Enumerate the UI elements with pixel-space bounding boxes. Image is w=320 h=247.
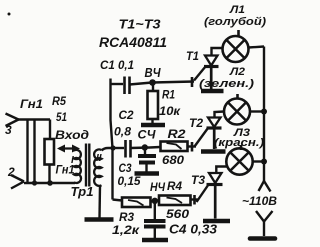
junction tick T2 gate [191,142,194,152]
svg-text:~110В: ~110В [242,194,277,208]
ground C4 [142,238,168,243]
ground R1 [141,123,165,128]
svg-text:Л2: Л2 [229,66,245,78]
svg-text:680: 680 [162,153,184,167]
wire L2 right to rail [250,110,264,112]
capacitor C3 [118,151,157,189]
svg-text:10к: 10к [159,104,181,118]
wire C1 to VCh node [130,83,153,85]
svg-text:С3: С3 [119,163,133,175]
svg-text:560: 560 [166,209,190,221]
lamp L1 [223,30,249,62]
vertical bus wire [111,79,113,200]
ground T3 [203,219,230,224]
junction tick T3 gate [193,195,196,205]
capacitor C1 [100,60,134,94]
svg-text:Тр1: Тр1 [71,184,94,199]
thyristor T1 [186,51,219,89]
svg-text:3: 3 [5,123,12,137]
jack pin 3 [5,114,19,138]
resistor R5 [45,96,68,183]
svg-text:Т3: Т3 [191,175,206,187]
svg-text:1,2к: 1,2к [112,225,140,237]
wire bus to C2 [113,147,125,149]
svg-text:R1: R1 [162,90,175,102]
thyristor T3 [191,173,223,219]
jack contact line B [33,119,35,183]
svg-text:2: 2 [7,165,15,179]
ground T2 [201,149,226,154]
terminal upper (rail end) [259,181,271,192]
svg-text:С1 0,1: С1 0,1 [100,60,134,72]
svg-text:Вход: Вход [55,130,89,142]
svg-text:II: II [96,153,102,164]
node rail L3 [261,159,267,165]
wire secondary bottom lead [98,186,101,219]
node R3-R4 [152,198,158,204]
node SCh [142,144,148,150]
svg-text:Гн1: Гн1 [56,165,75,177]
wire L2 left to T2 anode [215,112,225,118]
capacitor C4 [144,204,218,239]
resistor R3 [112,198,155,238]
transformer Tr1 primary winding I [71,150,81,183]
node bus-C2 [110,145,115,150]
svg-text:R2: R2 [168,129,187,141]
node VCh [149,79,156,86]
svg-text:С2: С2 [119,110,135,122]
wire bus corner to R3 [113,200,123,201]
ground T1 [201,89,224,94]
svg-text:51: 51 [56,112,67,124]
svg-text:Гн1: Гн1 [20,99,43,111]
svg-text:СЧ: СЧ [138,128,157,142]
svg-text:Т2: Т2 [189,118,204,130]
terminal lower [250,211,275,239]
wire L1 right to rail [249,47,265,48]
wire C2 to SCh node [131,146,151,149]
svg-text:Т1: Т1 [186,51,199,63]
input arrow [57,145,80,153]
transformer core [86,144,89,187]
svg-text:ВЧ: ВЧ [145,66,162,80]
lamp L2 [224,94,250,125]
svg-text:0,8: 0,8 [114,127,132,139]
right rail [263,47,265,182]
wire secondary top to bus [102,148,114,151]
ground transformer [85,217,114,222]
resistor R2 [150,129,196,167]
ground C3 [135,171,160,176]
wire L3 left to T3 anode [216,167,228,174]
junction tick T1 gate [191,77,194,87]
resistor R4 [155,181,198,221]
svg-text:R3: R3 [119,212,135,224]
wire VCh node to T1 gate [153,82,195,83]
node bottom A [32,180,37,185]
resistor R1 [148,85,181,123]
jack pin 2 [7,165,24,189]
wire L3 right to rail [253,160,264,162]
wire top bus corner to C1 [110,83,124,85]
stray dot [8,13,11,16]
wire L1 left to T1 anode [212,48,223,56]
thyristor T2 [189,118,222,150]
node R5 bottom [47,180,53,186]
node rail L2 [261,109,267,115]
svg-text:(голубой): (голубой) [204,16,266,28]
svg-text:0,15: 0,15 [118,176,142,188]
svg-text:R4: R4 [167,181,183,193]
svg-text:Т1~Т3: Т1~Т3 [119,17,162,32]
lamp L3 [226,145,252,175]
wire pin3 to R5 top [18,118,50,120]
svg-text:НЧ: НЧ [150,182,166,194]
svg-text:R5: R5 [52,96,67,108]
transformer Tr1 secondary winding II [94,149,102,185]
wire bottom bus to primary [24,182,75,184]
capacitor C2 [114,110,134,158]
svg-text:(зелен.): (зелен.) [199,78,254,90]
svg-text:С4 0,33: С4 0,33 [169,222,218,237]
jack contact line A [26,119,28,183]
svg-text:RCA40811: RCA40811 [99,35,167,50]
svg-text:Л1: Л1 [229,4,245,16]
